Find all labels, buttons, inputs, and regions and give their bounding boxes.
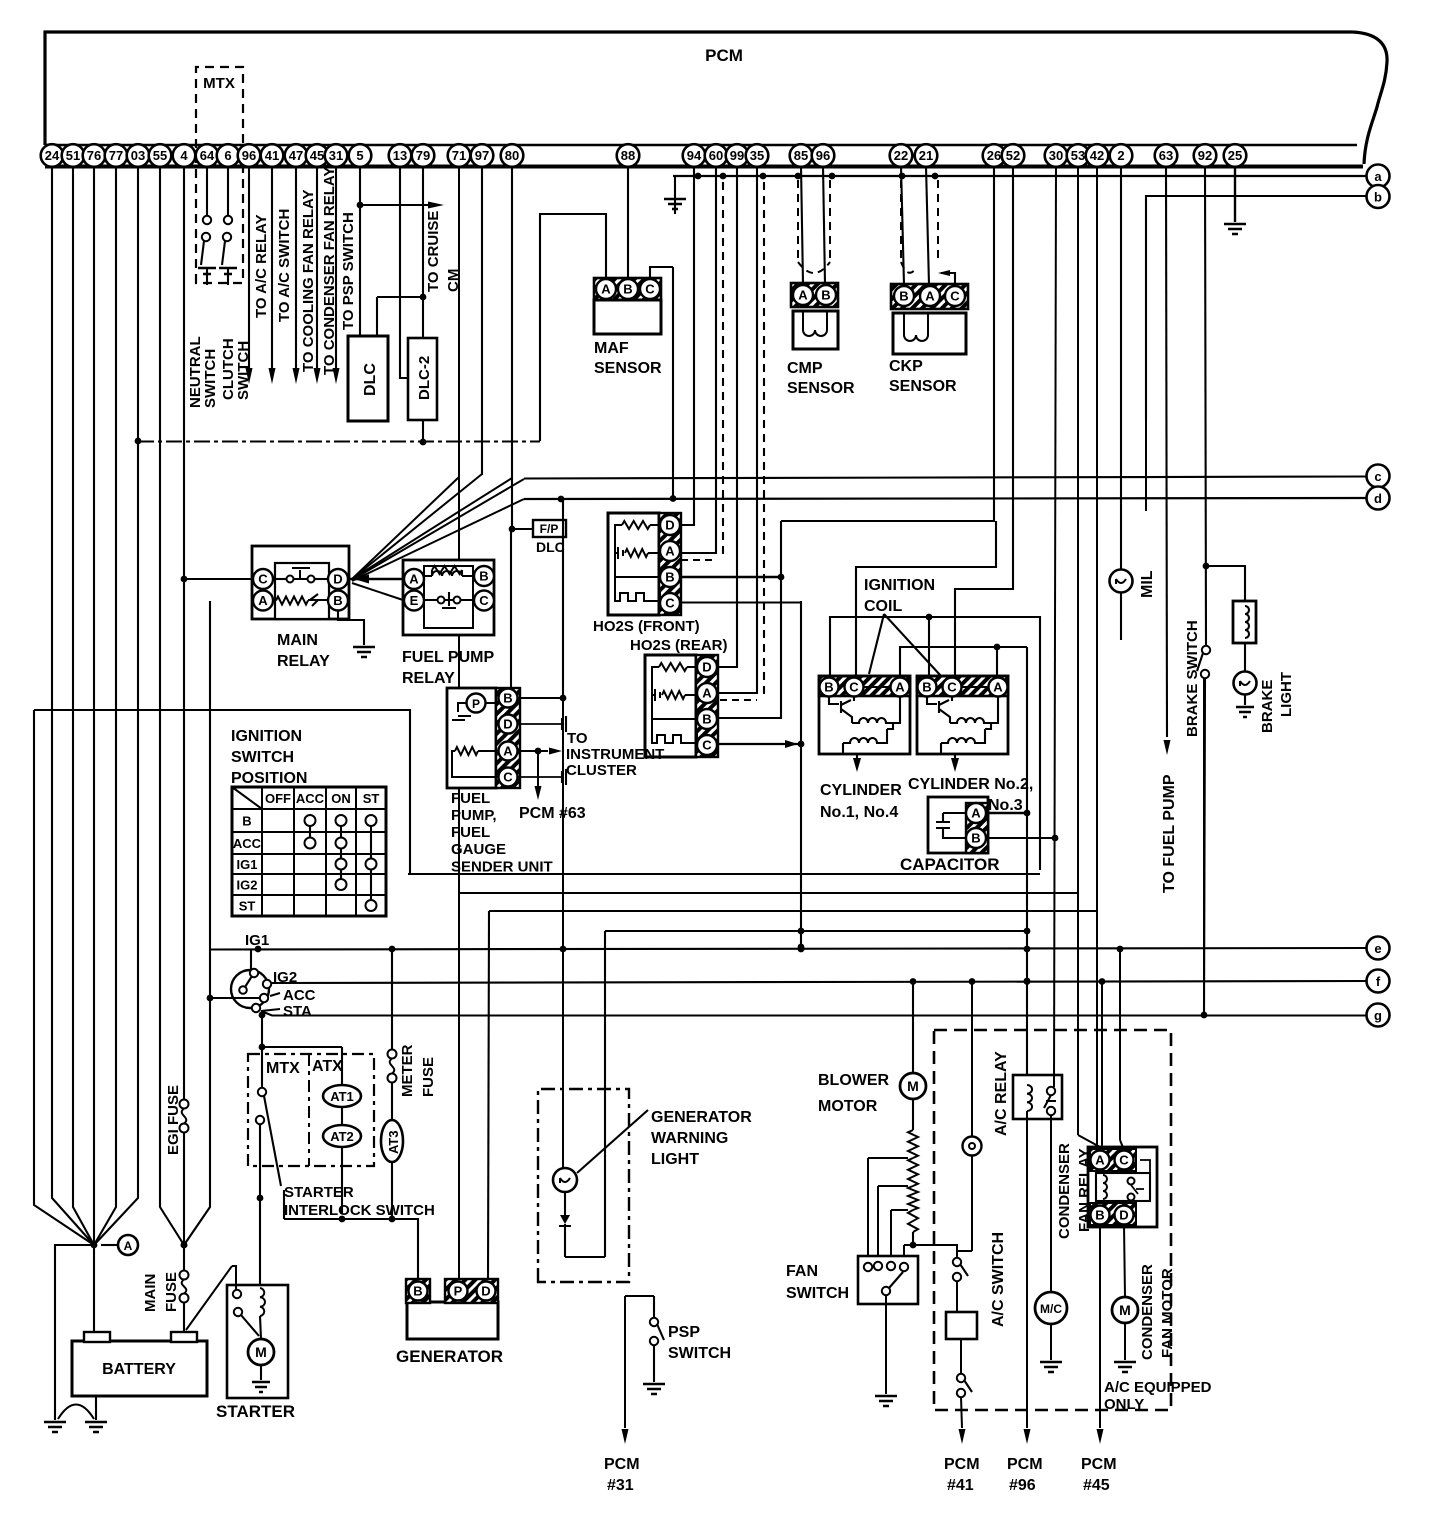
svg-text:PUMP,: PUMP, bbox=[451, 807, 497, 824]
svg-text:80: 80 bbox=[505, 148, 519, 163]
A/C amplifier box bbox=[946, 1312, 977, 1339]
clutch switch bbox=[227, 166, 229, 216]
PSP switch bbox=[653, 1296, 655, 1318]
svg-text:03: 03 bbox=[131, 148, 145, 163]
svg-text:IGNITION: IGNITION bbox=[864, 577, 935, 594]
wire battery to starter bbox=[186, 1266, 236, 1330]
PCM pin 51 bbox=[62, 144, 85, 167]
svg-text:76: 76 bbox=[87, 148, 101, 163]
svg-text:CAPACITOR: CAPACITOR bbox=[900, 855, 1000, 874]
meter fuse bbox=[391, 949, 393, 1049]
PCM box bbox=[45, 32, 1387, 164]
svg-text:SENSOR: SENSOR bbox=[594, 360, 662, 377]
wire main relay B to ground bbox=[338, 611, 364, 645]
svg-text:P: P bbox=[472, 697, 480, 711]
fuel pump motor P bbox=[467, 694, 486, 713]
svg-text:D: D bbox=[503, 717, 512, 732]
svg-text:C: C bbox=[947, 680, 957, 695]
PCM pin 60 bbox=[705, 144, 728, 167]
wire pin 99 to HO2S rear D bbox=[718, 166, 737, 667]
connector circle c bbox=[1367, 465, 1390, 488]
HO2S (FRONT) oxygen sensor bbox=[608, 513, 659, 615]
svg-text:51: 51 bbox=[66, 148, 80, 163]
svg-text:13: 13 bbox=[393, 148, 407, 163]
wire pin 88 to MAF B bbox=[627, 166, 629, 279]
battery ground strap arc bbox=[58, 1405, 94, 1420]
PCM pin 22 bbox=[890, 144, 913, 167]
svg-text:94: 94 bbox=[687, 148, 702, 163]
connector circle b bbox=[1367, 185, 1390, 208]
svg-text:AT3: AT3 bbox=[386, 1130, 401, 1154]
pointer lines to coils bbox=[869, 614, 884, 674]
wire: IG1 bus (e) bbox=[209, 948, 1366, 950]
svg-text:C: C bbox=[849, 680, 859, 695]
svg-text:TO COOLING FAN RELAY: TO COOLING FAN RELAY bbox=[300, 189, 317, 372]
svg-text:B: B bbox=[413, 1284, 422, 1299]
wire pin 92 vertical upper part bbox=[1203, 678, 1205, 1015]
wire: left frame down to battery fan bbox=[34, 710, 94, 1245]
DLC-2 bbox=[408, 338, 437, 420]
A/C relay bbox=[1013, 1075, 1062, 1119]
wire pin 13 to DLC-2 bbox=[400, 166, 408, 378]
ground (pin 25) bbox=[1224, 224, 1246, 234]
svg-text:C: C bbox=[702, 738, 712, 753]
svg-text:2: 2 bbox=[1117, 148, 1124, 163]
svg-text:COIL: COIL bbox=[864, 598, 902, 615]
svg-text:4: 4 bbox=[180, 148, 188, 163]
fuel pump, fuel gauge sender unit bbox=[447, 688, 496, 788]
wire from main relay A down (ACC feed) bbox=[184, 998, 210, 1245]
wire pin 26 feed (y521 bus) bbox=[781, 166, 994, 521]
svg-text:6: 6 bbox=[224, 148, 231, 163]
connector circle f bbox=[1367, 970, 1390, 993]
svg-text:M: M bbox=[255, 1344, 267, 1360]
ground stub on bus a bbox=[674, 176, 676, 214]
PCM pin 96 bbox=[812, 144, 835, 167]
wire fan switch to ground bbox=[885, 1295, 887, 1394]
svg-text:B: B bbox=[821, 288, 830, 303]
wire from pin 4 / EGI fuse / main fuse bbox=[183, 166, 185, 1099]
wire STA to interlock bbox=[261, 1015, 263, 1088]
PCM pin 76 bbox=[83, 144, 106, 167]
ground (chassis, left) bbox=[44, 1422, 66, 1432]
F/P DLC box bbox=[533, 520, 566, 537]
svg-text:31: 31 bbox=[329, 148, 343, 163]
wire HO2S rear C bbox=[718, 743, 801, 745]
wire from pin 24 bbox=[52, 166, 94, 1245]
svg-text:IG1: IG1 bbox=[245, 932, 269, 949]
svg-text:LIGHT: LIGHT bbox=[651, 1151, 699, 1168]
svg-text:PCM #63: PCM #63 bbox=[519, 805, 586, 822]
svg-text:A: A bbox=[409, 572, 419, 587]
svg-text:#45: #45 bbox=[1083, 1477, 1110, 1494]
svg-text:77: 77 bbox=[109, 148, 123, 163]
main relay coil bbox=[276, 597, 308, 605]
svg-text:96: 96 bbox=[242, 148, 256, 163]
wire pin 2 to MIL bbox=[1120, 166, 1122, 570]
svg-text:ONLY: ONLY bbox=[1104, 1396, 1144, 1413]
starter motor bbox=[260, 1316, 261, 1339]
svg-text:C: C bbox=[645, 282, 655, 297]
svg-text:BLOWER: BLOWER bbox=[818, 1072, 890, 1089]
condenser fan motor bbox=[1112, 1297, 1138, 1323]
capacitor box bbox=[928, 797, 988, 853]
svg-text:SENDER UNIT: SENDER UNIT bbox=[451, 859, 553, 876]
svg-text:C: C bbox=[503, 770, 513, 785]
wire from pin 03 bbox=[94, 166, 138, 1245]
svg-text:21: 21 bbox=[919, 148, 933, 163]
svg-text:RELAY: RELAY bbox=[277, 653, 330, 670]
brake light fuse bbox=[1233, 601, 1256, 643]
svg-text:SWITCH: SWITCH bbox=[786, 1285, 849, 1302]
wire bus y894 bbox=[459, 892, 1078, 894]
fuel pump relay bbox=[403, 560, 494, 635]
junction: battery + fan point bbox=[91, 1242, 98, 1249]
svg-text:A: A bbox=[1095, 1153, 1105, 1168]
connector circle d bbox=[1367, 487, 1390, 510]
svg-text:TO CRUISE: TO CRUISE bbox=[425, 211, 442, 292]
svg-text:D: D bbox=[333, 572, 342, 587]
svg-text:AT2: AT2 bbox=[330, 1129, 354, 1144]
wire AT3 down bbox=[391, 1162, 393, 1219]
ignition switch position table bbox=[232, 787, 386, 916]
svg-text:35: 35 bbox=[750, 148, 764, 163]
GENERATOR WARNING LIGHT label bbox=[577, 1110, 648, 1173]
svg-text:EGI FUSE: EGI FUSE bbox=[165, 1085, 182, 1155]
CKP sensor shield (dashed) bbox=[900, 180, 902, 262]
svg-text:SWITCH: SWITCH bbox=[668, 1345, 731, 1362]
fuel gauge resistor bbox=[455, 747, 478, 755]
svg-text:DLC-2: DLC-2 bbox=[416, 356, 433, 400]
wire to brake light fuse bbox=[1206, 566, 1245, 601]
coil inner bus y647 bbox=[900, 647, 1027, 676]
PCM pin 6 bbox=[217, 144, 240, 167]
svg-text:47: 47 bbox=[289, 148, 303, 163]
svg-text:b: b bbox=[1374, 190, 1382, 205]
PCM pin 5 bbox=[349, 144, 372, 167]
svg-text:No.1, No.4: No.1, No.4 bbox=[820, 804, 898, 821]
svg-text:60: 60 bbox=[709, 148, 723, 163]
svg-text:INTERLOCK SWITCH: INTERLOCK SWITCH bbox=[284, 1202, 435, 1219]
svg-text:FUEL: FUEL bbox=[451, 824, 490, 841]
svg-text:B: B bbox=[824, 680, 833, 695]
wire pin 35 to HO2S rear A bbox=[718, 166, 757, 693]
PCM pin 2 bbox=[1110, 144, 1133, 167]
wire pin 60 to HO2S front A bbox=[681, 166, 716, 553]
wire bus y910 bbox=[489, 910, 1097, 912]
wire condenser D to fan motor bbox=[1124, 1225, 1125, 1297]
PCM pin 13 bbox=[389, 144, 412, 167]
wire HO2S front B bbox=[681, 576, 781, 578]
svg-text:BRAKE SWITCH: BRAKE SWITCH bbox=[1184, 620, 1201, 737]
PCM pin 99 bbox=[726, 144, 749, 167]
PCM pin 41 bbox=[261, 144, 284, 167]
svg-text:FUEL: FUEL bbox=[451, 790, 490, 807]
wire main relay D to fuel pump relay A bbox=[349, 578, 403, 580]
svg-text:M: M bbox=[907, 1078, 919, 1094]
PCM pin 92 bbox=[1194, 144, 1217, 167]
MTX dashed box (top) bbox=[196, 67, 243, 283]
DLC bbox=[348, 336, 388, 421]
svg-text:30: 30 bbox=[1049, 148, 1063, 163]
svg-text:B: B bbox=[242, 814, 251, 829]
svg-text:MAIN: MAIN bbox=[142, 1274, 159, 1312]
svg-text:INSTRUMENT: INSTRUMENT bbox=[566, 746, 664, 763]
warning light inner loop bbox=[565, 931, 605, 1257]
wire HO2S rear B bbox=[718, 521, 781, 718]
svg-text:ACC: ACC bbox=[283, 987, 316, 1004]
svg-text:g: g bbox=[1374, 1008, 1382, 1023]
wire from pin 55 bbox=[160, 166, 184, 1245]
long bus y870 bbox=[408, 873, 1040, 875]
svg-text:TO PSP SWITCH: TO PSP SWITCH bbox=[340, 212, 357, 330]
svg-text:P: P bbox=[454, 1284, 463, 1299]
svg-text:ST: ST bbox=[363, 791, 380, 806]
wire DLC-2 bottom to bus bbox=[422, 420, 424, 442]
wire pin 97 upper bbox=[481, 166, 483, 475]
svg-text:FUSE: FUSE bbox=[163, 1272, 180, 1312]
fan switch bbox=[858, 1256, 918, 1304]
wire: STA bus (g) bbox=[261, 1011, 1366, 1016]
svg-text:DLC: DLC bbox=[362, 363, 379, 396]
svg-text:SWITCH: SWITCH bbox=[231, 749, 294, 766]
svg-text:B: B bbox=[333, 593, 342, 608]
svg-text:53: 53 bbox=[1071, 148, 1085, 163]
svg-text:IG1: IG1 bbox=[237, 857, 258, 872]
svg-text:WARNING: WARNING bbox=[651, 1130, 728, 1147]
svg-text:D: D bbox=[665, 518, 674, 533]
wire sender D with terminal ticks bbox=[518, 723, 562, 725]
wire sender A to instrument cluster bbox=[518, 750, 548, 752]
svg-text:52: 52 bbox=[1006, 148, 1020, 163]
svg-text:ACC: ACC bbox=[296, 791, 325, 806]
svg-text:METER: METER bbox=[399, 1044, 416, 1097]
PCM pin 45 bbox=[306, 144, 329, 167]
svg-text:BATTERY: BATTERY bbox=[102, 1361, 176, 1378]
svg-text:71: 71 bbox=[452, 148, 466, 163]
ignition key switch bbox=[250, 949, 252, 970]
PCM pin 03 bbox=[127, 144, 150, 167]
svg-text:A: A bbox=[702, 686, 712, 701]
svg-text:FUEL PUMP: FUEL PUMP bbox=[402, 649, 494, 666]
svg-text:D: D bbox=[702, 660, 711, 675]
CMP sensor shield (dashed) bbox=[797, 180, 799, 262]
svg-text:IG2: IG2 bbox=[273, 969, 297, 986]
svg-text:B: B bbox=[665, 570, 674, 585]
PCM pin 96 bbox=[238, 144, 261, 167]
PCM pin 35 bbox=[746, 144, 769, 167]
brake switch bbox=[1202, 646, 1210, 654]
wire ACC to main relay A line bbox=[210, 997, 261, 999]
wire x1146 bbox=[1145, 420, 1147, 511]
wire generator D feed bbox=[488, 911, 489, 1282]
A/C switch thermo contact bbox=[971, 981, 973, 1137]
PSP switch wiring bbox=[625, 1295, 654, 1297]
svg-text:B: B bbox=[623, 282, 632, 297]
wire: ground bus a bbox=[673, 175, 1366, 177]
wire fuel pump relay E diagonal bbox=[352, 583, 403, 600]
shield dashes near front A bbox=[722, 182, 724, 558]
svg-text:B: B bbox=[1095, 1208, 1104, 1223]
wire pin 79 to DLC-2 / DLC link bbox=[422, 166, 424, 338]
svg-text:A: A bbox=[503, 744, 513, 759]
condenser fan relay bbox=[1088, 1147, 1157, 1227]
svg-text:C: C bbox=[479, 593, 489, 608]
svg-text:41: 41 bbox=[265, 148, 279, 163]
PCM pin 21 bbox=[915, 144, 938, 167]
PCM pin 97 bbox=[471, 144, 494, 167]
ignition coil (cylinder 2,3) bbox=[917, 676, 1008, 696]
wire interlock bottom bus bbox=[284, 1190, 418, 1280]
PCM pin 94 bbox=[683, 144, 706, 167]
PCM pin 77 bbox=[105, 144, 128, 167]
svg-text:IGNITION: IGNITION bbox=[231, 728, 302, 745]
starter bbox=[227, 1285, 288, 1398]
svg-text:f: f bbox=[1376, 974, 1381, 989]
wire pin 21 to CKP A bbox=[926, 166, 929, 285]
svg-text:#96: #96 bbox=[1009, 1477, 1036, 1494]
svg-text:PCM: PCM bbox=[944, 1456, 980, 1473]
svg-text:B: B bbox=[479, 569, 488, 584]
svg-text:FAN: FAN bbox=[786, 1263, 818, 1280]
svg-text:POSITION: POSITION bbox=[231, 770, 307, 787]
svg-text:A: A bbox=[971, 806, 981, 821]
neutral switch bbox=[206, 166, 208, 216]
starter interlock box (MTX/ATX) bbox=[248, 1054, 374, 1166]
svg-text:D: D bbox=[481, 1284, 490, 1299]
fan wires into main relay D bbox=[352, 477, 459, 579]
svg-text:CYLINDER: CYLINDER bbox=[820, 782, 902, 799]
svg-text:d: d bbox=[1374, 491, 1382, 506]
svg-text:TO A/C RELAY: TO A/C RELAY bbox=[253, 214, 270, 318]
wire f bus to condenser A bbox=[1101, 981, 1103, 1150]
svg-text:TO A/C SWITCH: TO A/C SWITCH bbox=[276, 209, 293, 322]
shield dashes near rear A bbox=[763, 182, 765, 699]
battery bbox=[72, 1341, 207, 1396]
svg-text:STARTER: STARTER bbox=[216, 1402, 295, 1421]
svg-text:97: 97 bbox=[475, 148, 489, 163]
svg-text:B: B bbox=[899, 289, 908, 304]
PCM pin 88 bbox=[617, 144, 640, 167]
HO2S (REAR) oxygen sensor bbox=[645, 655, 696, 757]
svg-text:24: 24 bbox=[45, 148, 60, 163]
wire: TO COOLING FAN RELAY bbox=[295, 166, 297, 368]
svg-text:ATX: ATX bbox=[312, 1058, 343, 1075]
wire sender A to PCM 63 bbox=[537, 751, 539, 786]
svg-text:22: 22 bbox=[894, 148, 908, 163]
wire e bus to condenser C bbox=[1119, 948, 1121, 1140]
svg-text:55: 55 bbox=[153, 148, 167, 163]
wire sender C with terminal ticks bbox=[518, 776, 562, 778]
svg-text:M/C: M/C bbox=[1040, 1302, 1062, 1316]
fuel pump relay switch bbox=[438, 597, 445, 604]
wire to chassis ground bbox=[55, 1245, 94, 1420]
main relay bbox=[252, 546, 349, 619]
wire: TO CRUISE CM bbox=[360, 204, 430, 206]
wire from pin 76 bbox=[93, 166, 95, 1332]
PCM pin 53 bbox=[1067, 144, 1090, 167]
wire A/C relay coil to PCM 96 bbox=[1026, 1111, 1028, 1428]
svg-text:5: 5 bbox=[356, 148, 363, 163]
svg-text:#31: #31 bbox=[607, 1477, 634, 1494]
svg-text:FAN RELAY: FAN RELAY bbox=[1076, 1148, 1093, 1232]
svg-text:C: C bbox=[258, 572, 268, 587]
PCM pin 85 bbox=[790, 144, 813, 167]
svg-text:MIL: MIL bbox=[1139, 570, 1156, 598]
svg-text:63: 63 bbox=[1159, 148, 1173, 163]
svg-text:A: A bbox=[993, 680, 1003, 695]
PCM pin 52 bbox=[1002, 144, 1025, 167]
wire pin 63: TO FUEL PUMP bbox=[1166, 166, 1167, 737]
PCM pin 80 bbox=[501, 144, 524, 167]
warning light diode bbox=[564, 1192, 566, 1215]
wire pin 71 down to generator P bbox=[458, 166, 460, 1282]
svg-text:RELAY: RELAY bbox=[402, 670, 455, 687]
wire box around ignition switch position bbox=[209, 601, 211, 1000]
svg-text:C: C bbox=[1119, 1153, 1129, 1168]
blower motor bbox=[912, 981, 914, 1073]
svg-text:MTX: MTX bbox=[266, 1060, 300, 1077]
brake light bulb bbox=[1234, 672, 1257, 695]
wire interlock to starter coil bbox=[259, 1124, 261, 1285]
svg-text:MTX: MTX bbox=[203, 75, 235, 92]
svg-text:C: C bbox=[665, 596, 675, 611]
PCM pin 24 bbox=[41, 144, 64, 167]
wire pin 25 to ground bbox=[1234, 166, 1236, 222]
starter contacts bbox=[233, 1290, 241, 1298]
svg-text:B: B bbox=[503, 691, 512, 706]
EGI fuse bbox=[180, 1100, 189, 1109]
ground (brake light) bbox=[1236, 707, 1254, 717]
wire: TO PSP SWITCH bbox=[335, 166, 337, 368]
PCM pin 25 bbox=[1224, 144, 1247, 167]
svg-text:GENERATOR: GENERATOR bbox=[396, 1347, 503, 1366]
wire y567 bus to left coil C bbox=[856, 521, 996, 676]
svg-text:M: M bbox=[1119, 1302, 1131, 1318]
svg-text:A: A bbox=[895, 680, 905, 695]
svg-text:E: E bbox=[410, 593, 419, 608]
svg-text:DLC: DLC bbox=[536, 539, 565, 555]
svg-text:F/P: F/P bbox=[540, 522, 559, 536]
wire pin 42 to PCM 45 bbox=[1096, 166, 1098, 1147]
svg-text:MAIN: MAIN bbox=[277, 632, 318, 649]
PCM pin 31 bbox=[325, 144, 348, 167]
MAIN FUSE bbox=[180, 1271, 189, 1280]
svg-text:HO2S (REAR): HO2S (REAR) bbox=[630, 637, 728, 654]
svg-text:PSP: PSP bbox=[668, 1324, 700, 1341]
AT2 bbox=[341, 1107, 343, 1126]
svg-text:85: 85 bbox=[794, 148, 808, 163]
svg-text:45: 45 bbox=[310, 148, 324, 163]
PCM pin 4 bbox=[173, 144, 196, 167]
svg-text:PCM: PCM bbox=[705, 46, 743, 65]
MIL bulb bbox=[1110, 570, 1133, 593]
wire bus y931 bbox=[605, 930, 1027, 932]
svg-text:A: A bbox=[925, 289, 935, 304]
svg-text:HO2S (FRONT): HO2S (FRONT) bbox=[593, 618, 700, 635]
svg-text:A/C SWITCH: A/C SWITCH bbox=[990, 1232, 1007, 1327]
svg-text:TO FUEL PUMP: TO FUEL PUMP bbox=[1161, 774, 1178, 893]
svg-text:#41: #41 bbox=[947, 1477, 974, 1494]
svg-text:C: C bbox=[950, 289, 960, 304]
PCM pin 71 bbox=[448, 144, 471, 167]
svg-text:FUSE: FUSE bbox=[420, 1057, 437, 1097]
main relay switch contact bbox=[287, 576, 294, 583]
interlock switch (MTX) bbox=[258, 1088, 266, 1096]
generator warning light bulb bbox=[553, 1168, 577, 1192]
svg-text:CONDENSER: CONDENSER bbox=[1056, 1143, 1073, 1239]
svg-text:CKP: CKP bbox=[889, 358, 923, 375]
